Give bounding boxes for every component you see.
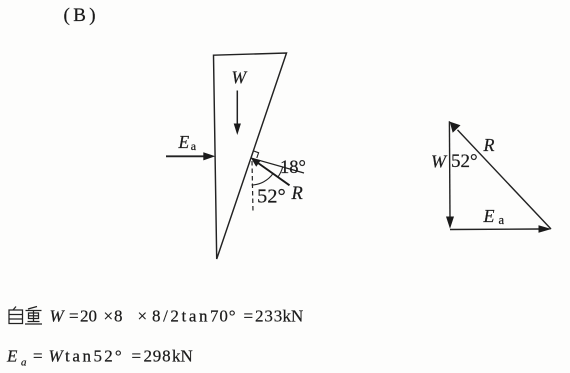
svg-text:E: E <box>483 206 495 226</box>
weight arrow W <box>236 91 238 127</box>
svg-text:52°: 52° <box>451 151 478 172</box>
18 degree arc <box>278 167 283 177</box>
svg-text:Ea=Wtan52°=298kN: Ea=Wtan52°=298kN <box>6 347 193 369</box>
right-angle square on face at node P <box>252 151 259 158</box>
normal line at P <box>251 158 304 173</box>
svg-text:a: a <box>499 213 505 227</box>
reaction R line with arrowhead at P <box>253 159 290 185</box>
svg-text:R: R <box>291 184 303 204</box>
svg-text:W=20×8×8/2tan70°=233kN: W=20×8×8/2tan70°=233kN <box>50 307 304 326</box>
force triangle: Ea side <box>450 228 540 231</box>
svg-text:52°: 52° <box>257 186 286 208</box>
hanzi ZHONG (重) <box>25 307 42 325</box>
svg-text:(B): (B) <box>64 5 100 26</box>
svg-text:18°: 18° <box>280 158 306 178</box>
force triangle: W side <box>448 121 451 219</box>
svg-text:W: W <box>232 68 248 88</box>
svg-text:W: W <box>431 152 448 172</box>
earth-pressure arrow Ea <box>166 155 207 157</box>
dam triangle outline <box>214 53 287 259</box>
hanzi ZI (自) <box>9 307 23 324</box>
dashed vertical line below P <box>252 161 253 212</box>
svg-text:E: E <box>178 132 190 152</box>
svg-text:a: a <box>191 139 197 153</box>
52 degree arc <box>252 174 274 185</box>
force triangle: R side <box>458 130 552 229</box>
svg-text:R: R <box>483 135 495 155</box>
